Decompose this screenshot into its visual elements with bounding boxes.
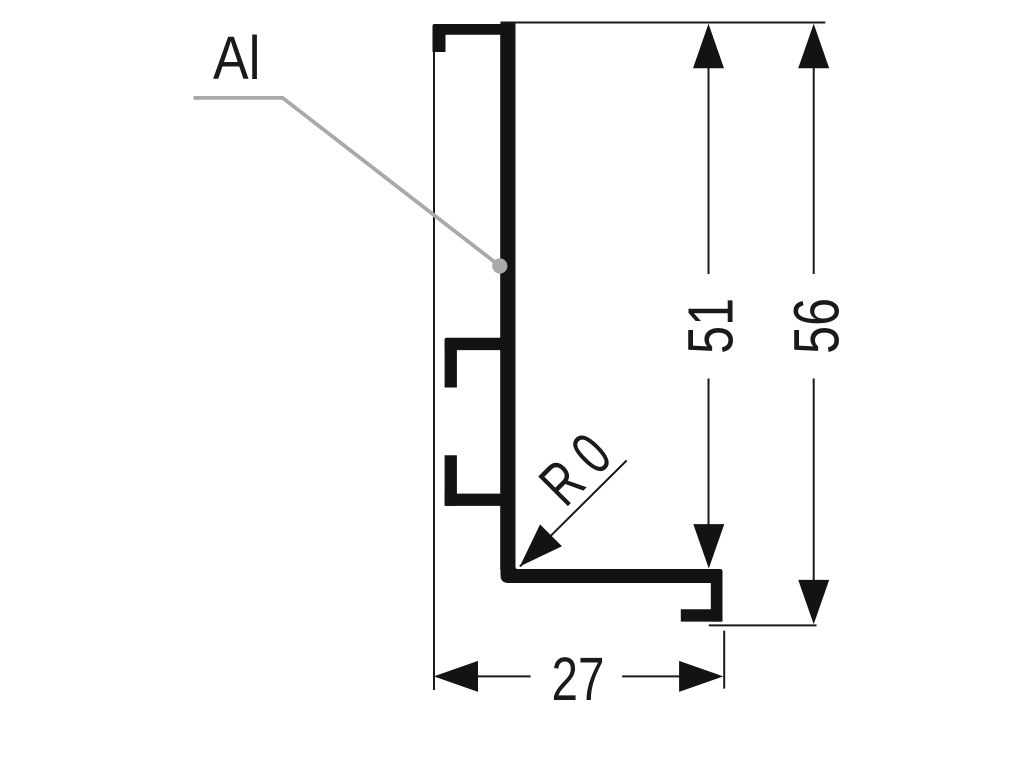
dimension 27 left arrowhead [434, 661, 478, 692]
dimension 51 line upper segment [708, 60, 710, 274]
Al leader dot [492, 258, 507, 273]
profile top-left stub [433, 30, 446, 52]
profile clip channel bottom stub [445, 455, 457, 506]
dimension 51 line lower segment [708, 379, 710, 531]
right extension line (27 dim) [723, 631, 725, 689]
profile main wall [500, 24, 515, 571]
profile clip channel top bar [445, 338, 503, 350]
profile right foot bottom lip [681, 609, 723, 621]
profile top flange [433, 24, 516, 35]
profile right foot vertical [711, 575, 723, 622]
dimension 56 bottom arrowhead [798, 580, 829, 624]
svg-text:51: 51 [674, 298, 746, 354]
dimension 51 bottom arrowhead [693, 524, 724, 568]
dimension 56 top arrowhead [798, 24, 829, 68]
profile clip channel top stub [445, 340, 457, 388]
Al leader line [194, 98, 500, 266]
profile bottom flange [501, 560, 723, 583]
R0 arrowhead [520, 524, 562, 566]
profile clip channel bottom bar [445, 494, 503, 506]
top extension line [501, 22, 826, 24]
bottom-right extension line (56 dim) [709, 624, 817, 626]
dimension 51 top arrowhead [693, 24, 724, 68]
dimension 27 line left segment [450, 675, 531, 677]
dimension 56 line upper segment [813, 60, 815, 274]
svg-text:27: 27 [552, 645, 605, 714]
dimension 27 line right segment [622, 675, 700, 677]
svg-text:56: 56 [781, 298, 853, 354]
left extension line (27 dim) [433, 52, 435, 690]
R0 leader line [520, 461, 627, 567]
svg-text:Al: Al [213, 24, 261, 92]
dimension 27 right arrowhead [679, 661, 723, 692]
dimension 56 line lower segment [813, 379, 815, 586]
